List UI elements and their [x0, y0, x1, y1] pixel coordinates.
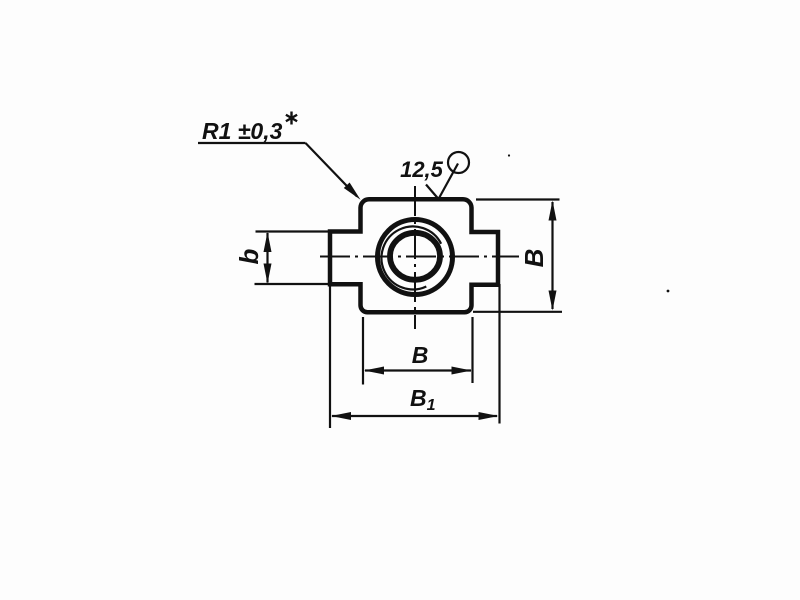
svg-text:b: b	[234, 248, 264, 264]
svg-text:B: B	[519, 249, 549, 268]
svg-text:12,5: 12,5	[400, 157, 444, 182]
svg-text:B: B	[412, 342, 429, 368]
svg-text:R1 ±0,3: R1 ±0,3	[202, 118, 283, 144]
